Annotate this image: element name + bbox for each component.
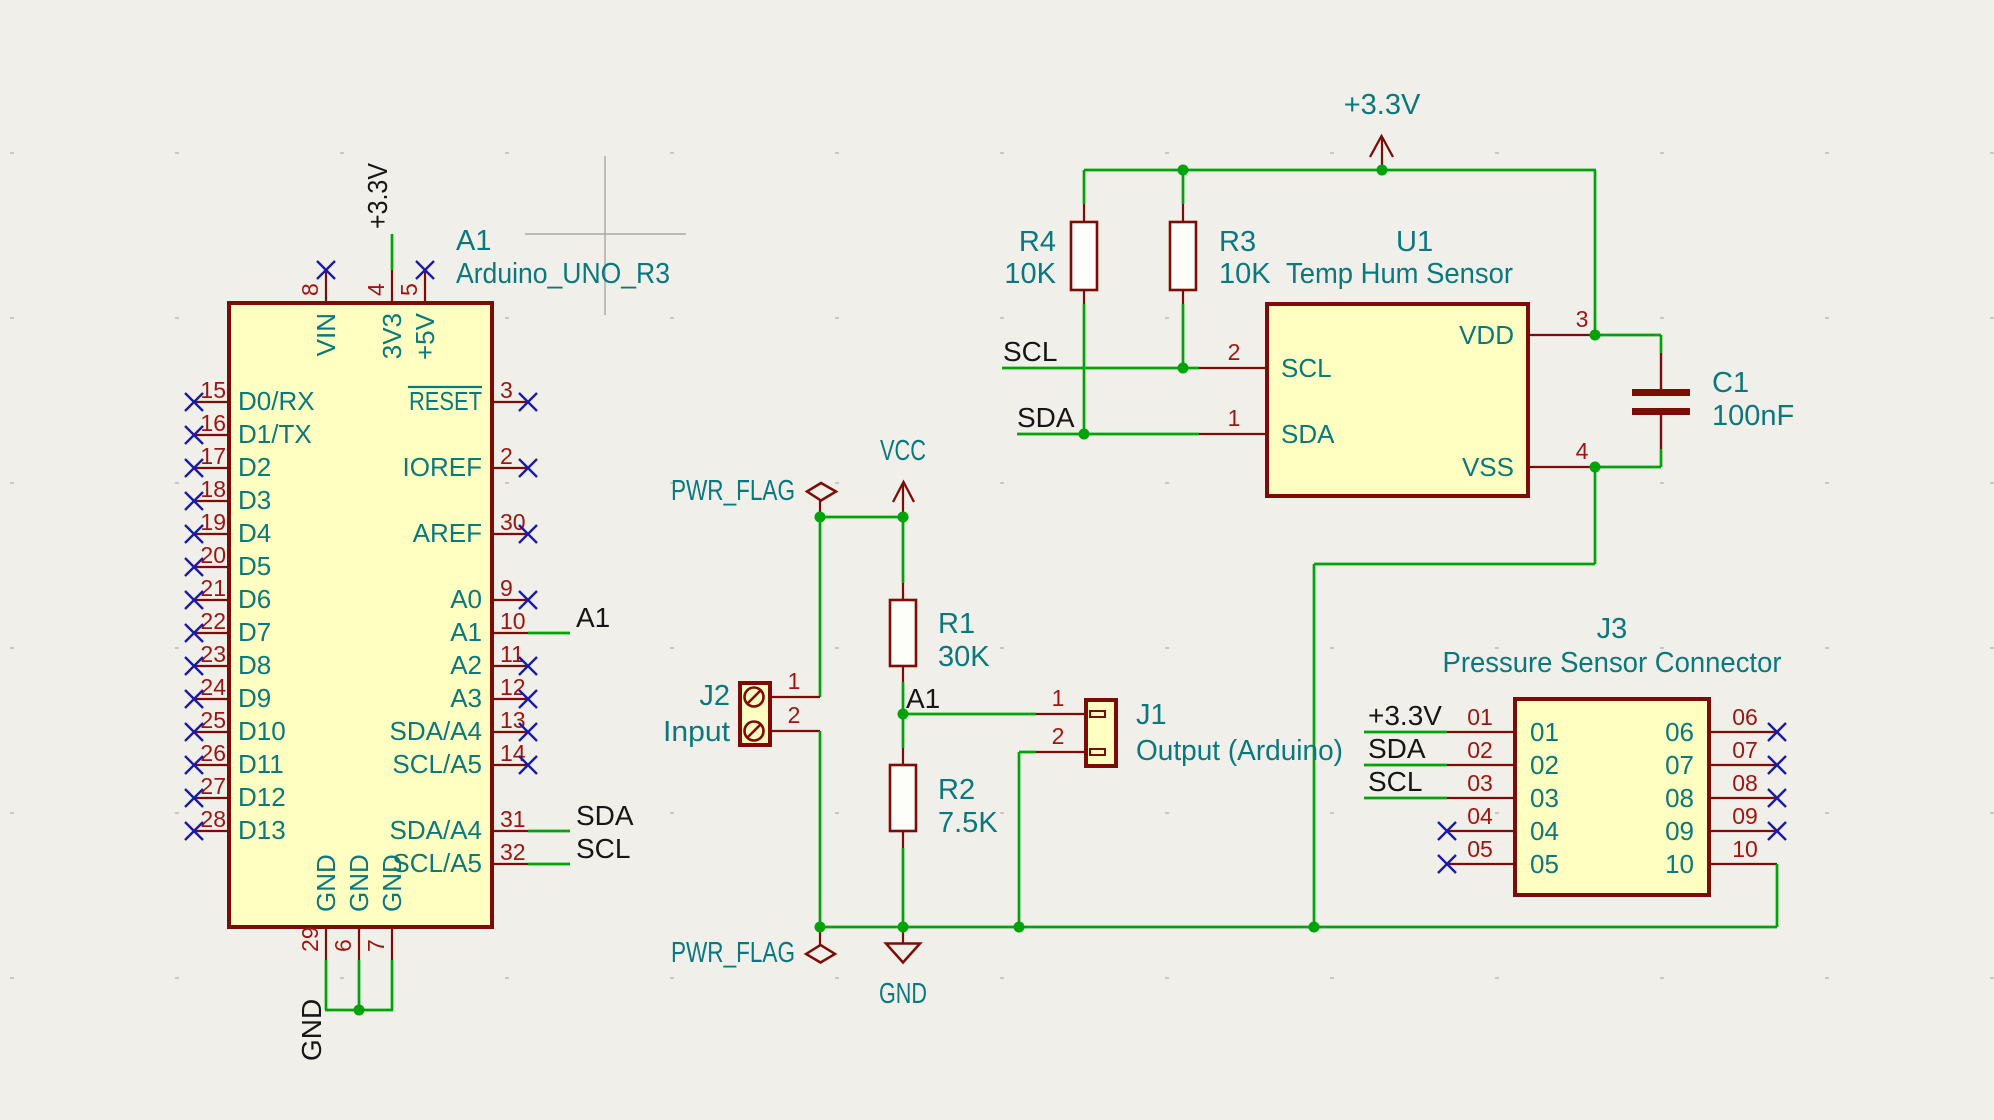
no-connect X pin 25 xyxy=(185,723,203,741)
wire J1 pin2 to gnd xyxy=(1018,752,1021,927)
svg-text:13: 13 xyxy=(500,707,526,733)
svg-text:SDA/A4: SDA/A4 xyxy=(390,815,483,845)
svg-text:23: 23 xyxy=(200,641,226,667)
pin 2 SCL of U1 xyxy=(1199,339,1332,383)
no-connect X pin 17 xyxy=(185,459,203,477)
svg-text:26: 26 xyxy=(200,740,226,766)
pin 1 of J1 xyxy=(1036,685,1105,717)
svg-text:VSS: VSS xyxy=(1462,452,1514,482)
svg-text:SCL: SCL xyxy=(1368,766,1422,797)
svg-text:7: 7 xyxy=(363,939,389,952)
svg-text:06: 06 xyxy=(1732,704,1758,730)
wire J2 pin2 to gnd xyxy=(819,731,822,927)
no-connect X pin 18 xyxy=(185,492,203,510)
wire rail to R4 xyxy=(1083,170,1086,204)
svg-text:10: 10 xyxy=(1665,849,1694,879)
IC U1 Temp Hum Sensor body xyxy=(1267,304,1528,496)
wire SDA to J3-02 xyxy=(1364,764,1447,767)
pin 30 AREF of A1 xyxy=(413,509,528,548)
junction rail R2 xyxy=(898,922,909,933)
wire to J2 pin1 xyxy=(819,517,822,697)
svg-text:D12: D12 xyxy=(238,782,286,812)
pin 6 GND of A1 xyxy=(330,854,374,960)
svg-text:28: 28 xyxy=(200,806,226,832)
pin 09 of J3 (right) xyxy=(1665,803,1777,846)
svg-text:03: 03 xyxy=(1530,783,1559,813)
svg-text:+3.3V: +3.3V xyxy=(1368,700,1442,731)
pin 2 IOREF of A1 xyxy=(403,443,528,482)
svg-text:4: 4 xyxy=(1576,438,1589,464)
svg-text:GND: GND xyxy=(377,854,407,912)
svg-text:R3: R3 xyxy=(1219,226,1256,258)
svg-text:18: 18 xyxy=(200,476,226,502)
svg-text:3V3: 3V3 xyxy=(377,313,407,359)
pin 5 +5V of A1 xyxy=(396,270,440,360)
wire VDD to C1 xyxy=(1595,334,1661,337)
wire R2 to gnd rail xyxy=(902,848,905,927)
svg-text:R4: R4 xyxy=(1019,226,1056,258)
svg-text:02: 02 xyxy=(1467,737,1493,763)
no-connect X pin 5 xyxy=(416,261,434,279)
pin 4 VSS of U1 xyxy=(1462,438,1595,482)
resistor R3 xyxy=(1170,204,1271,304)
svg-text:01: 01 xyxy=(1530,717,1559,747)
no-connect X pin 11 xyxy=(519,657,537,675)
pin 03 of J3 (left) xyxy=(1447,770,1559,813)
svg-text:09: 09 xyxy=(1732,803,1758,829)
svg-text:+3.3V: +3.3V xyxy=(362,163,393,229)
pin 13 SDA/A4 of A1 xyxy=(390,707,529,746)
svg-text:Input: Input xyxy=(663,716,730,748)
svg-text:SDA: SDA xyxy=(576,800,634,831)
pin 12 A3 of A1 xyxy=(450,674,528,713)
svg-text:U1: U1 xyxy=(1396,226,1433,258)
wire A1 pin10 net A1 xyxy=(528,632,570,635)
wire SCL to J3-03 xyxy=(1364,797,1447,800)
no-connect X pin 26 xyxy=(185,756,203,774)
no-connect X pin 12 xyxy=(519,690,537,708)
svg-text:VIN: VIN xyxy=(311,313,341,356)
pin 17 D2 of A1 xyxy=(194,443,271,482)
svg-text:J2: J2 xyxy=(699,680,730,712)
svg-text:7.5K: 7.5K xyxy=(938,807,998,839)
svg-text:3: 3 xyxy=(500,377,513,403)
svg-text:10: 10 xyxy=(500,608,526,634)
junction SCL-R3 xyxy=(1178,363,1189,374)
pin 22 D7 of A1 xyxy=(194,608,271,647)
wire A1 tap to J1 xyxy=(903,713,1036,716)
wire J3-10 to gnd rail xyxy=(1776,864,1779,927)
resistor R2 xyxy=(890,748,998,848)
pin 05 of J3 (left) xyxy=(1447,836,1559,879)
svg-text:IOREF: IOREF xyxy=(403,452,482,482)
svg-text:SDA: SDA xyxy=(1017,402,1075,433)
wire tap to R2 xyxy=(902,714,905,748)
svg-text:14: 14 xyxy=(500,740,526,766)
svg-text:RESET: RESET xyxy=(409,386,482,416)
svg-text:AREF: AREF xyxy=(413,518,482,548)
no-connect X pin 2 xyxy=(519,459,537,477)
svg-text:GND: GND xyxy=(879,978,927,1010)
wire +3.3V to J3-01 xyxy=(1364,731,1447,734)
pin 2 of J1 xyxy=(1036,723,1105,755)
junction pwrflag xyxy=(815,512,826,523)
pin 25 D10 of A1 xyxy=(194,707,286,746)
connector J3 Pressure Sensor Connector body xyxy=(1515,699,1709,895)
svg-text:27: 27 xyxy=(200,773,226,799)
svg-text:GND: GND xyxy=(296,999,327,1061)
pin 01 of J3 (left) xyxy=(1447,704,1559,747)
svg-text:25: 25 xyxy=(200,707,226,733)
wire A1 gnd tie xyxy=(325,1009,393,1012)
pin 18 D3 of A1 xyxy=(194,476,271,515)
svg-text:15: 15 xyxy=(200,377,226,403)
pin 28 D13 of A1 xyxy=(194,806,286,845)
svg-text:29: 29 xyxy=(297,926,323,952)
power symbol PWR_FLAG (top) xyxy=(671,475,836,517)
pin 10 of J3 (right) xyxy=(1665,836,1777,879)
svg-text:1: 1 xyxy=(788,668,801,694)
wire VSS drop xyxy=(1313,564,1316,927)
svg-text:22: 22 xyxy=(200,608,226,634)
no-connect X pin 20 xyxy=(185,558,203,576)
junction rail J1 xyxy=(1014,922,1025,933)
no-connect X pin 19 xyxy=(185,525,203,543)
svg-text:05: 05 xyxy=(1467,836,1493,862)
wire C1 bottom rise xyxy=(1660,449,1663,467)
junction rail pwrflag xyxy=(815,922,826,933)
svg-text:24: 24 xyxy=(200,674,226,700)
svg-text:07: 07 xyxy=(1665,750,1694,780)
wire A1 pin29 down xyxy=(325,960,328,1010)
svg-text:D0/RX: D0/RX xyxy=(238,386,315,416)
no-connect X pin 23 xyxy=(185,657,203,675)
wire R4 to SDA xyxy=(1083,304,1086,434)
no-connect X pin 06 xyxy=(1768,723,1786,741)
svg-text:12: 12 xyxy=(500,674,526,700)
svg-text:PWR_FLAG: PWR_FLAG xyxy=(671,937,795,969)
junction rail +3.3V xyxy=(1377,165,1388,176)
wire VSS to C1 xyxy=(1595,466,1661,469)
pin 04 of J3 (left) xyxy=(1447,803,1559,846)
svg-text:J1: J1 xyxy=(1136,699,1167,731)
junction rail VSS xyxy=(1309,922,1320,933)
pin 19 D4 of A1 xyxy=(194,509,271,548)
no-connect X pin 28 xyxy=(185,822,203,840)
svg-text:02: 02 xyxy=(1530,750,1559,780)
junction VSS node xyxy=(1590,462,1601,473)
svg-text:D7: D7 xyxy=(238,617,271,647)
svg-text:Arduino_UNO_R3: Arduino_UNO_R3 xyxy=(456,258,670,290)
no-connect X pin 27 xyxy=(185,789,203,807)
svg-text:D10: D10 xyxy=(238,716,286,746)
svg-text:20: 20 xyxy=(200,542,226,568)
power symbol GND xyxy=(879,927,927,1010)
no-connect X pin 07 xyxy=(1768,756,1786,774)
junction VDD node xyxy=(1590,330,1601,341)
junction SDA-R4 xyxy=(1079,429,1090,440)
svg-text:04: 04 xyxy=(1530,816,1559,846)
no-connect X pin 13 xyxy=(519,723,537,741)
pin 27 D12 of A1 xyxy=(194,773,286,812)
pin 14 SCL/A5 of A1 xyxy=(392,740,528,779)
svg-text:07: 07 xyxy=(1732,737,1758,763)
wire A1 pin7 down xyxy=(391,960,394,1010)
svg-text:GND: GND xyxy=(311,854,341,912)
svg-text:3: 3 xyxy=(1576,306,1589,332)
pin 3 VDD of U1 xyxy=(1459,306,1595,350)
svg-text:D1/TX: D1/TX xyxy=(238,419,312,449)
connector J1 Output body xyxy=(1086,700,1116,766)
svg-text:2: 2 xyxy=(1228,339,1241,365)
capacitor C1 xyxy=(1632,353,1690,449)
pin 3 RESET of A1 xyxy=(408,377,528,416)
pin 06 of J3 (right) xyxy=(1665,704,1777,747)
svg-text:A1: A1 xyxy=(456,225,491,257)
svg-text:31: 31 xyxy=(500,806,526,832)
svg-text:1: 1 xyxy=(1228,405,1241,431)
svg-text:D11: D11 xyxy=(238,749,284,779)
svg-text:01: 01 xyxy=(1467,704,1493,730)
svg-text:08: 08 xyxy=(1665,783,1694,813)
junction vcc xyxy=(898,512,909,523)
svg-text:SDA: SDA xyxy=(1281,419,1335,449)
svg-text:D2: D2 xyxy=(238,452,271,482)
wire 3V3 up xyxy=(391,234,394,270)
wire SCL xyxy=(1002,367,1199,370)
svg-text:5: 5 xyxy=(396,283,422,296)
svg-text:09: 09 xyxy=(1665,816,1694,846)
svg-text:A1: A1 xyxy=(576,602,610,633)
wire J1 pin2 stub xyxy=(1019,751,1036,754)
resistor R4 xyxy=(1004,204,1097,304)
svg-text:1: 1 xyxy=(1052,685,1065,711)
pin 31 SDA/A4 of A1 xyxy=(390,806,529,845)
svg-text:SCL: SCL xyxy=(576,833,630,864)
svg-text:Output (Arduino): Output (Arduino) xyxy=(1136,735,1343,767)
svg-text:SCL: SCL xyxy=(1003,336,1057,367)
svg-text:Pressure Sensor Connector: Pressure Sensor Connector xyxy=(1443,647,1782,679)
wire rail to VDD xyxy=(1594,170,1597,335)
power symbol +3.3V xyxy=(1344,89,1421,171)
pin 7 GND of A1 xyxy=(363,854,407,960)
wire vcc to R1 xyxy=(902,517,905,583)
svg-text:D5: D5 xyxy=(238,551,271,581)
power symbol PWR_FLAG (bottom) xyxy=(671,927,835,969)
wire R3 to SCL xyxy=(1182,304,1185,368)
svg-text:D8: D8 xyxy=(238,650,271,680)
pin 9 A0 of A1 xyxy=(450,575,528,614)
no-connect X pin 9 xyxy=(519,591,537,609)
pin 16 D1/TX of A1 xyxy=(194,410,312,449)
svg-text:4: 4 xyxy=(363,283,389,296)
pin 1 of J2 (screw terminal) xyxy=(745,668,821,707)
svg-text:+5V: +5V xyxy=(410,312,440,360)
svg-text:08: 08 xyxy=(1732,770,1758,796)
svg-text:C1: C1 xyxy=(1712,367,1749,399)
wire A1 pin6 down xyxy=(358,960,361,1010)
svg-text:11: 11 xyxy=(500,641,524,667)
wire +3.3V rail xyxy=(1084,169,1596,172)
svg-text:GND: GND xyxy=(344,854,374,912)
pin 08 of J3 (right) xyxy=(1665,770,1777,813)
svg-text:VCC: VCC xyxy=(880,435,926,467)
svg-text:SCL/A5: SCL/A5 xyxy=(392,749,482,779)
no-connect X pin 8 xyxy=(317,261,335,279)
svg-text:SDA/A4: SDA/A4 xyxy=(390,716,483,746)
no-connect X pin 15 xyxy=(185,393,203,411)
junction A1 tap xyxy=(898,709,909,720)
svg-text:Temp Hum Sensor: Temp Hum Sensor xyxy=(1286,258,1513,290)
connector J2 Input body xyxy=(740,683,770,745)
svg-text:D4: D4 xyxy=(238,518,271,548)
power symbol VCC xyxy=(880,435,926,517)
no-connect X pin 08 xyxy=(1768,789,1786,807)
no-connect X pin 30 xyxy=(519,525,537,543)
svg-text:D9: D9 xyxy=(238,683,271,713)
svg-text:SDA: SDA xyxy=(1368,733,1426,764)
svg-text:D13: D13 xyxy=(238,815,286,845)
svg-text:19: 19 xyxy=(200,509,226,535)
wire VSS down xyxy=(1594,467,1597,564)
wire C1 top drop xyxy=(1660,335,1663,353)
svg-text:R1: R1 xyxy=(938,608,975,640)
no-connect X pin 3 xyxy=(519,393,537,411)
svg-text:A1: A1 xyxy=(906,683,940,714)
pin 8 VIN of A1 xyxy=(297,270,341,356)
pin 1 SDA of U1 xyxy=(1199,405,1335,449)
svg-text:06: 06 xyxy=(1665,717,1694,747)
svg-text:A3: A3 xyxy=(450,683,482,713)
pin 10 A1 of A1 xyxy=(450,608,528,647)
svg-text:10: 10 xyxy=(1732,836,1758,862)
pin 26 D11 of A1 xyxy=(194,740,284,779)
wire R1 to A1 node xyxy=(902,682,905,714)
svg-text:J3: J3 xyxy=(1597,613,1628,645)
svg-text:05: 05 xyxy=(1530,849,1559,879)
resistor R1 xyxy=(890,583,990,682)
svg-text:2: 2 xyxy=(500,443,513,469)
pin 23 D8 of A1 xyxy=(194,641,271,680)
wire A1 pin31 net SDA xyxy=(528,830,570,833)
no-connect X pin 22 xyxy=(185,624,203,642)
pin 07 of J3 (right) xyxy=(1665,737,1777,780)
svg-text:6: 6 xyxy=(330,939,356,952)
svg-text:PWR_FLAG: PWR_FLAG xyxy=(671,475,795,507)
svg-text:04: 04 xyxy=(1467,803,1493,829)
wire VSS left xyxy=(1314,563,1595,566)
no-connect X pin 05 xyxy=(1438,855,1456,873)
no-connect X pin 09 xyxy=(1768,822,1786,840)
no-connect X pin 14 xyxy=(519,756,537,774)
svg-text:SCL: SCL xyxy=(1281,353,1332,383)
svg-text:A0: A0 xyxy=(450,584,482,614)
svg-text:A1: A1 xyxy=(450,617,482,647)
svg-text:32: 32 xyxy=(500,839,526,865)
no-connect X pin 04 xyxy=(1438,822,1456,840)
module A1 Arduino_UNO_R3 body xyxy=(229,303,492,927)
svg-text:30K: 30K xyxy=(938,641,990,673)
junction A1 GND xyxy=(354,1005,365,1016)
svg-text:8: 8 xyxy=(297,283,323,296)
svg-text:VDD: VDD xyxy=(1459,320,1514,350)
pin 29 GND of A1 xyxy=(297,854,341,960)
svg-text:D6: D6 xyxy=(238,584,271,614)
wire vcc tie xyxy=(820,516,903,519)
svg-text:D3: D3 xyxy=(238,485,271,515)
pin 21 D6 of A1 xyxy=(194,575,271,614)
pin 4 3V3 of A1 xyxy=(363,270,407,359)
svg-text:10K: 10K xyxy=(1004,258,1056,290)
pin 2 of J2 (screw terminal) xyxy=(745,702,821,741)
no-connect X pin 24 xyxy=(185,690,203,708)
svg-text:9: 9 xyxy=(500,575,513,601)
wire A1 pin32 net SCL xyxy=(528,863,570,866)
svg-text:30: 30 xyxy=(500,509,526,535)
pin 02 of J3 (left) xyxy=(1447,737,1559,780)
svg-text:2: 2 xyxy=(788,702,801,728)
svg-text:21: 21 xyxy=(200,575,226,601)
svg-text:17: 17 xyxy=(200,443,226,469)
pin 11 A2 of A1 xyxy=(450,641,528,680)
svg-text:R2: R2 xyxy=(938,774,975,806)
wire rail to R3 xyxy=(1182,170,1185,204)
wire GND rail xyxy=(820,926,1777,929)
no-connect X pin 21 xyxy=(185,591,203,609)
svg-text:16: 16 xyxy=(200,410,226,436)
pin 32 SCL/A5 of A1 xyxy=(392,839,528,878)
svg-text:03: 03 xyxy=(1467,770,1493,796)
pin 15 D0/RX of A1 xyxy=(194,377,315,416)
junction rail R3 xyxy=(1178,165,1189,176)
svg-text:2: 2 xyxy=(1052,723,1065,749)
svg-text:+3.3V: +3.3V xyxy=(1344,89,1421,121)
no-connect X pin 16 xyxy=(185,426,203,444)
svg-text:100nF: 100nF xyxy=(1712,400,1794,432)
pin 24 D9 of A1 xyxy=(194,674,271,713)
pin 20 D5 of A1 xyxy=(194,542,271,581)
svg-text:A2: A2 xyxy=(450,650,482,680)
svg-text:10K: 10K xyxy=(1219,258,1271,290)
wire SDA xyxy=(1017,433,1199,436)
